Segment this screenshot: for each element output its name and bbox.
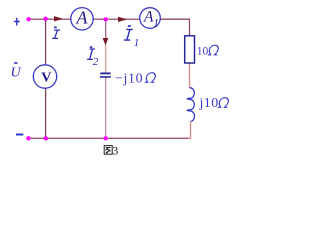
capacitor C bottom plate [100, 76, 111, 78]
inductor L j10ohm coil [187, 88, 194, 122]
node bottom junction of voltmeter branch [44, 136, 48, 140]
inductor value label j10 ohm [199, 96, 230, 111]
arrow current I1 direction on top wire [118, 17, 127, 22]
svg-text:1: 1 [134, 37, 140, 49]
resistor value label 10 ohm [197, 45, 220, 57]
capacitor C top plate [100, 72, 110, 74]
svg-text:A: A [76, 8, 89, 28]
node + terminal dot [26, 17, 30, 21]
label U dot mark [14, 62, 17, 64]
svg-text:j10: j10 [199, 96, 219, 111]
caption figure 3 hand-drawn CJK glyph [104, 146, 112, 155]
node top junction of voltmeter branch [43, 17, 47, 21]
node top junction of capacitor branch [104, 17, 108, 21]
label I dot mark [54, 27, 57, 29]
label I2 dot mark [90, 46, 93, 48]
wire middle branch vertical below capacitor [105, 77, 107, 138]
label + polarity sign [14, 18, 20, 26]
capacitor value label -j10 ohm [115, 71, 157, 86]
label - polarity sign [16, 134, 23, 136]
wire bottom segment from corner to - terminal [28, 137, 188, 139]
svg-text:10: 10 [197, 46, 209, 58]
label current I with dot (seriffed italic I) [52, 30, 60, 38]
arrow current I2 direction on middle branch [103, 38, 109, 45]
node - terminal dot [26, 136, 30, 140]
svg-text:3: 3 [112, 143, 118, 157]
svg-text:V: V [41, 70, 51, 85]
wire right-bottom segment from inductor to corner [186, 122, 191, 139]
wire top-right segment from A1 to corner and down to resistor [160, 19, 189, 36]
ammeter A1 circle [140, 8, 161, 29]
ammeter U_A circle [71, 8, 93, 30]
label I1 dot mark [128, 25, 131, 27]
voltmeter V circle [33, 65, 56, 88]
wire middle branch vertical from arrow to capacitor [105, 44, 107, 73]
wire left branch vertical below voltmeter V [45, 88, 47, 138]
svg-text:−j10: −j10 [115, 71, 143, 86]
arrow current I direction on top wire [54, 16, 63, 21]
wire top-left segment from + terminal to ammeter A [29, 18, 71, 20]
wire right segment between resistor and inductor [189, 63, 191, 88]
svg-text:2: 2 [93, 56, 99, 68]
wire top segment from ammeter A to ammeter A1 [93, 18, 140, 20]
label current I1 with dot (seriffed italic I) [124, 29, 133, 40]
label current I2 with dot (seriffed italic I) [87, 49, 95, 59]
wire middle branch vertical from top junction to I2 arrow [105, 19, 107, 39]
resistor R 10ohm rectangle [185, 36, 195, 63]
node bottom junction of capacitor branch [104, 136, 108, 140]
wire left branch vertical above voltmeter V [45, 19, 47, 65]
svg-text:U: U [11, 65, 22, 80]
svg-text:1: 1 [153, 17, 159, 29]
